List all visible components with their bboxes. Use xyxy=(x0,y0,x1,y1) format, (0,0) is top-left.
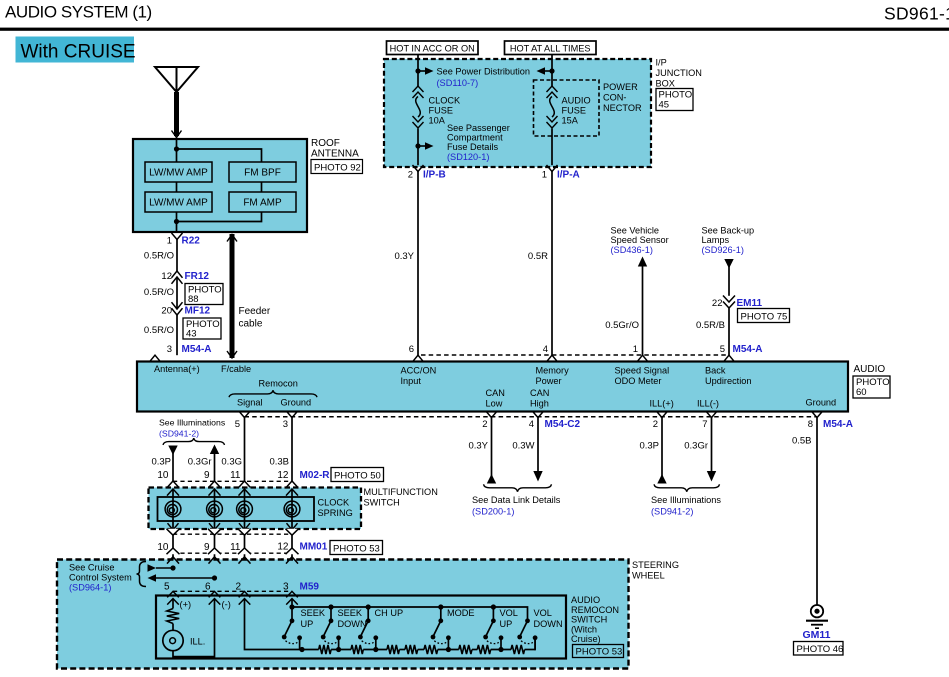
svg-text:MODE: MODE xyxy=(447,608,475,618)
amplifier block LW/MW AMP lower xyxy=(145,192,212,212)
switch SEEK_DOWN xyxy=(328,604,333,609)
svg-text:Memory: Memory xyxy=(536,366,570,376)
wire 0.3P illumination xyxy=(172,450,174,481)
svg-text:Lamps: Lamps xyxy=(702,235,730,245)
svg-text:SEEK: SEEK xyxy=(301,608,326,618)
svg-text:Remocon: Remocon xyxy=(259,379,298,389)
svg-text:M59: M59 xyxy=(300,582,320,593)
svg-text:0.3Y: 0.3Y xyxy=(468,441,488,452)
wire I/P-B to ACC/ON input xyxy=(417,172,419,356)
svg-text:SD961-1: SD961-1 xyxy=(884,4,949,24)
svg-text:(SD200-1): (SD200-1) xyxy=(472,507,514,517)
svg-text:(Witch: (Witch xyxy=(571,624,597,634)
wire audio fuse down xyxy=(551,129,553,166)
antenna mast symbol xyxy=(155,67,198,92)
svg-text:M54-C2: M54-C2 xyxy=(545,419,581,430)
roof antenna unit box xyxy=(133,139,307,232)
svg-text:PHOTO 75: PHOTO 75 xyxy=(741,311,788,322)
svg-text:I/P-B: I/P-B xyxy=(423,170,446,181)
svg-text:20: 20 xyxy=(161,306,172,317)
clock spring inner box xyxy=(158,497,315,521)
svg-text:3: 3 xyxy=(283,419,288,430)
svg-text:45: 45 xyxy=(659,100,670,111)
svg-text:(SD926-1): (SD926-1) xyxy=(702,245,744,255)
svg-text:(SD941-2): (SD941-2) xyxy=(159,429,199,439)
svg-text:CLOCK: CLOCK xyxy=(318,498,351,508)
wire CAN high xyxy=(537,418,539,472)
svg-text:EM11: EM11 xyxy=(737,298,763,309)
resistor ILL xyxy=(167,609,179,624)
MM01 pin chevrons xyxy=(167,529,180,535)
svg-text:88: 88 xyxy=(188,294,199,305)
svg-text:See Data Link Details: See Data Link Details xyxy=(472,495,561,505)
node junction bottom inside roof antenna xyxy=(174,219,179,224)
svg-text:Control System: Control System xyxy=(69,573,132,583)
connector EM11 double chevron xyxy=(723,296,735,303)
wire 0.3Gr illumination xyxy=(214,452,216,481)
svg-text:4: 4 xyxy=(529,419,534,430)
svg-text:cable: cable xyxy=(239,319,263,330)
wire speed signal xyxy=(642,266,644,355)
svg-text:UP: UP xyxy=(301,619,314,629)
arrow up to speed sensor xyxy=(638,257,647,267)
svg-text:Updirection: Updirection xyxy=(705,376,751,386)
amplifier block FM AMP xyxy=(229,192,296,212)
connector M02-R dashed line xyxy=(173,480,292,482)
svg-text:UP: UP xyxy=(500,619,513,629)
wire M59 pin2 to resistor chain xyxy=(245,599,303,650)
svg-text:FM AMP: FM AMP xyxy=(243,198,282,209)
svg-text:ILL(-): ILL(-) xyxy=(697,399,719,409)
svg-text:0.5B: 0.5B xyxy=(792,436,812,447)
wires through clock spring xyxy=(172,489,174,535)
svg-text:DOWN: DOWN xyxy=(534,619,563,629)
svg-text:MM01: MM01 xyxy=(300,542,328,553)
wire antenna(+) R22 to M54-A xyxy=(176,240,178,272)
audio remocon switch box xyxy=(156,596,566,659)
node passenger fuse tap xyxy=(415,143,420,148)
svg-text:See Illuminations: See Illuminations xyxy=(651,495,721,505)
svg-text:10: 10 xyxy=(157,470,169,481)
svg-text:0.3Gr: 0.3Gr xyxy=(684,441,708,452)
connector FR12 double chevron xyxy=(172,271,183,278)
entry chevrons multifunction top xyxy=(167,489,179,496)
svg-text:(SD436-1): (SD436-1) xyxy=(611,245,653,255)
svg-text:Cruise): Cruise) xyxy=(571,634,601,644)
I/P junction box dashed xyxy=(384,59,651,167)
svg-text:(-): (-) xyxy=(222,600,231,610)
svg-text:ILL.: ILL. xyxy=(190,637,205,647)
svg-text:Antenna(+): Antenna(+) xyxy=(154,364,200,374)
svg-text:CAN: CAN xyxy=(530,388,549,398)
svg-text:15A: 15A xyxy=(562,116,579,126)
svg-text:REMOCON: REMOCON xyxy=(571,605,619,615)
svg-text:11: 11 xyxy=(230,470,241,481)
svg-text:I/P: I/P xyxy=(656,58,667,68)
svg-text:2: 2 xyxy=(235,582,241,593)
svg-text:5: 5 xyxy=(164,582,170,593)
photo ref PHOTO 50 xyxy=(331,468,384,482)
svg-text:6: 6 xyxy=(409,344,414,355)
cruise brace xyxy=(137,562,147,587)
svg-text:0.3B: 0.3B xyxy=(269,457,289,468)
feeder cable thick wire xyxy=(230,234,235,358)
svg-text:With CRUISE: With CRUISE xyxy=(21,42,136,63)
svg-text:10: 10 xyxy=(157,542,169,553)
svg-text:See Illuminations: See Illuminations xyxy=(159,418,226,428)
svg-text:0.3W: 0.3W xyxy=(512,441,534,452)
wire antenna feed inside roof antenna xyxy=(176,139,178,162)
svg-text:WHEEL: WHEEL xyxy=(632,571,665,581)
power connector dashed box xyxy=(534,80,600,136)
arrow down from back-up lamps xyxy=(724,259,733,269)
svg-text:3: 3 xyxy=(283,582,289,593)
M59 pin chevrons xyxy=(167,591,179,597)
photo ref PHOTO 45 xyxy=(656,89,693,111)
svg-text:DOWN: DOWN xyxy=(338,619,367,629)
svg-text:Ground: Ground xyxy=(281,398,312,408)
connector I/P-A chevron xyxy=(547,165,558,172)
node power distribution tap right xyxy=(549,68,554,73)
svg-text:AUDIO SYSTEM (1): AUDIO SYSTEM (1) xyxy=(5,3,152,22)
header rule xyxy=(0,28,949,31)
pin chevrons audio top edge xyxy=(150,355,161,362)
svg-text:0.5R/O: 0.5R/O xyxy=(144,251,174,262)
svg-text:See Vehicle: See Vehicle xyxy=(611,226,660,236)
wire lamp to (-) xyxy=(173,599,215,657)
svg-text:FM BPF: FM BPF xyxy=(244,168,281,179)
svg-text:LW/MW AMP: LW/MW AMP xyxy=(149,168,208,179)
svg-text:1: 1 xyxy=(633,344,638,355)
svg-text:High: High xyxy=(530,399,549,409)
svg-text:VOL: VOL xyxy=(534,608,552,618)
svg-text:SWITCH: SWITCH xyxy=(571,615,607,625)
wires through MM01 xyxy=(172,535,174,548)
svg-text:0.3Y: 0.3Y xyxy=(394,251,414,262)
svg-text:JUNCTION: JUNCTION xyxy=(656,68,702,78)
photo ref PHOTO 53 lower xyxy=(573,645,624,658)
svg-text:See Power Distribution: See Power Distribution xyxy=(437,67,530,77)
svg-text:MULTIFUNCTION: MULTIFUNCTION xyxy=(364,487,438,497)
svg-text:STEERING: STEERING xyxy=(632,560,679,570)
svg-text:0.3P: 0.3P xyxy=(639,441,659,452)
svg-text:22: 22 xyxy=(712,298,723,309)
connector R22 chevron at roof antenna xyxy=(172,233,183,240)
svg-text:43: 43 xyxy=(186,329,197,340)
svg-text:Compartment: Compartment xyxy=(447,133,503,143)
svg-text:6: 6 xyxy=(205,582,211,593)
svg-text:PHOTO 53: PHOTO 53 xyxy=(333,543,380,554)
svg-text:BOX: BOX xyxy=(656,79,675,89)
svg-text:HOT IN ACC OR ON: HOT IN ACC OR ON xyxy=(390,44,475,54)
svg-text:1: 1 xyxy=(167,236,172,247)
svg-text:2: 2 xyxy=(408,170,413,181)
svg-text:Low: Low xyxy=(486,399,503,409)
wire FM AMP output xyxy=(177,212,262,222)
svg-text:2: 2 xyxy=(653,419,658,430)
svg-text:GM11: GM11 xyxy=(802,629,830,641)
antenna lead-in thick wire xyxy=(174,92,179,136)
svg-text:(SD941-2): (SD941-2) xyxy=(651,507,693,517)
photo ref PHOTO 75 xyxy=(738,309,790,323)
wire from HOT IN ACC OR ON xyxy=(417,55,419,87)
photo ref PHOTO 88 xyxy=(185,284,223,305)
svg-text:POWER: POWER xyxy=(603,82,638,92)
ground symbol GM11 xyxy=(811,605,823,617)
svg-text:(+): (+) xyxy=(180,600,192,610)
svg-text:Fuse Details: Fuse Details xyxy=(447,142,498,152)
svg-text:ANTENNA: ANTENNA xyxy=(311,149,359,160)
wire ILL(-) pin7 xyxy=(711,418,713,472)
lamp ILL. xyxy=(163,630,183,650)
filter block FM BPF xyxy=(229,162,296,182)
svg-text:Input: Input xyxy=(401,376,422,386)
svg-text:Speed Signal: Speed Signal xyxy=(615,366,670,376)
svg-text:12: 12 xyxy=(277,542,289,553)
svg-text:CH UP: CH UP xyxy=(375,608,404,618)
fuse AUDIO FUSE 15A xyxy=(547,86,558,92)
svg-text:M54-A: M54-A xyxy=(733,344,763,355)
wire to FM BPF xyxy=(177,149,262,162)
svg-text:PHOTO 53: PHOTO 53 xyxy=(576,647,623,658)
switch CH UP xyxy=(366,604,371,609)
switch VOL_DOWN xyxy=(525,618,530,623)
svg-text:8: 8 xyxy=(808,419,813,430)
arrow up illumination return xyxy=(210,445,219,455)
svg-text:2: 2 xyxy=(482,419,487,430)
svg-text:FUSE: FUSE xyxy=(429,106,454,116)
connector M59 dashed line xyxy=(173,590,292,592)
svg-text:0.5Gr/O: 0.5Gr/O xyxy=(605,320,639,331)
svg-text:4: 4 xyxy=(543,344,548,355)
wire ground 0.5B xyxy=(816,418,818,605)
svg-text:See Back-up: See Back-up xyxy=(702,226,755,236)
cruise tap arrow to ILL+ wire xyxy=(148,564,157,571)
svg-text:0.3G: 0.3G xyxy=(221,457,242,468)
wire link FM BPF to FM AMP xyxy=(261,182,263,192)
svg-text:ROOF: ROOF xyxy=(311,138,340,149)
fuse CLOCK FUSE 10A xyxy=(413,86,424,92)
svg-text:Signal: Signal xyxy=(237,398,263,408)
svg-text:0.5R/B: 0.5R/B xyxy=(696,320,725,331)
multifunction switch dashed box xyxy=(149,488,362,530)
svg-text:9: 9 xyxy=(204,542,210,553)
wire back updirection upper xyxy=(728,263,730,296)
wire M59 pin3 to switch bus xyxy=(291,599,293,607)
svg-text:0.3Gr: 0.3Gr xyxy=(188,457,212,468)
label box HOT AT ALL TIMES xyxy=(505,41,597,55)
svg-text:NECTOR: NECTOR xyxy=(603,103,642,113)
wire CAN low xyxy=(491,418,493,477)
photo ref PHOTO 92 xyxy=(311,160,363,174)
With CRUISE banner xyxy=(16,37,135,63)
svg-text:PHOTO 50: PHOTO 50 xyxy=(334,470,381,481)
svg-text:AUDIO: AUDIO xyxy=(562,96,591,106)
clock spring spiral coils xyxy=(165,501,181,517)
svg-text:7: 7 xyxy=(702,419,707,430)
svg-text:R22: R22 xyxy=(182,236,201,247)
connector M02-R pin chevrons xyxy=(167,481,179,488)
svg-text:CAN: CAN xyxy=(486,388,505,398)
svg-text:ILL(+): ILL(+) xyxy=(650,399,674,409)
pin chevrons audio bottom edge xyxy=(239,411,250,417)
svg-text:0.5R: 0.5R xyxy=(528,251,548,262)
connector M54-A dashed line top xyxy=(421,354,726,356)
svg-text:M54-A: M54-A xyxy=(823,419,853,430)
photo ref PHOTO 46 xyxy=(794,642,844,656)
svg-text:11: 11 xyxy=(230,542,241,553)
svg-text:0.3P: 0.3P xyxy=(151,457,171,468)
svg-text:SWITCH: SWITCH xyxy=(364,498,400,508)
svg-text:ACC/ON: ACC/ON xyxy=(401,366,437,376)
svg-text:CLOCK: CLOCK xyxy=(429,96,462,106)
steering wheel dashed box xyxy=(57,560,629,669)
svg-text:AUDIO: AUDIO xyxy=(854,364,886,375)
exit chevrons multifunction bottom xyxy=(168,523,179,530)
svg-text:CON-: CON- xyxy=(603,93,626,103)
svg-text:10A: 10A xyxy=(429,116,446,126)
svg-text:3: 3 xyxy=(167,344,172,355)
photo ref PHOTO 43 xyxy=(183,318,221,339)
amplifier block LW/MW AMP upper xyxy=(145,162,212,182)
svg-text:9: 9 xyxy=(204,470,210,481)
connector I/P-B chevron xyxy=(413,165,424,172)
wire chain end to VOL DOWN contact xyxy=(534,638,536,651)
wire clock fuse down xyxy=(417,129,419,166)
svg-text:AUDIO: AUDIO xyxy=(571,595,600,605)
svg-text:HOT AT ALL TIMES: HOT AT ALL TIMES xyxy=(510,44,591,54)
connector MF12 double chevron xyxy=(172,302,183,309)
wire remocon signal xyxy=(244,418,246,481)
switch contact junction dots on chain xyxy=(299,647,304,652)
illumination underbrace right xyxy=(654,484,720,492)
svg-text:I/P-A: I/P-A xyxy=(557,170,580,181)
svg-text:FR12: FR12 xyxy=(185,271,210,282)
wire LW/MW AMP output xyxy=(176,212,178,232)
arrow down illumination feed xyxy=(168,446,177,456)
svg-text:Feeder: Feeder xyxy=(239,306,271,317)
photo ref PHOTO 60 xyxy=(853,376,890,398)
svg-text:Power: Power xyxy=(536,376,562,386)
svg-text:5: 5 xyxy=(235,419,240,430)
svg-text:(SD120-1): (SD120-1) xyxy=(447,152,489,162)
switch SEEK_UP xyxy=(289,604,294,609)
photo ref PHOTO 53 upper xyxy=(330,541,383,555)
switch MODE xyxy=(438,604,443,609)
svg-text:Ground: Ground xyxy=(806,398,837,408)
svg-text:ODO Meter: ODO Meter xyxy=(615,376,662,386)
cruise tap arrow from ILL- wire xyxy=(148,574,157,581)
svg-text:60: 60 xyxy=(856,387,867,398)
svg-text:VOL: VOL xyxy=(500,608,518,618)
label box HOT IN ACC OR ON xyxy=(387,41,479,55)
svg-text:F/cable: F/cable xyxy=(221,364,251,374)
svg-text:Speed Sensor: Speed Sensor xyxy=(611,235,669,245)
svg-text:SPRING: SPRING xyxy=(318,508,353,518)
wire I/P-A to memory power xyxy=(551,172,553,356)
svg-text:M02-R: M02-R xyxy=(300,470,331,481)
audio head unit box xyxy=(137,362,848,412)
svg-text:12: 12 xyxy=(277,470,289,481)
svg-text:PHOTO 46: PHOTO 46 xyxy=(797,644,844,655)
svg-text:Back: Back xyxy=(705,366,726,376)
svg-text:M54-A: M54-A xyxy=(182,344,212,355)
wire remocon ground xyxy=(291,418,293,481)
switch VOL_UP xyxy=(491,604,496,609)
svg-text:See Passenger: See Passenger xyxy=(447,123,510,133)
svg-text:0.5R/O: 0.5R/O xyxy=(144,287,174,298)
svg-text:MF12: MF12 xyxy=(185,306,211,317)
svg-text:12: 12 xyxy=(161,271,172,282)
svg-text:See Cruise: See Cruise xyxy=(69,563,114,573)
entry chevrons steering box xyxy=(167,557,179,564)
svg-text:0.5R/O: 0.5R/O xyxy=(144,325,174,336)
svg-text:5: 5 xyxy=(720,344,725,355)
svg-text:(SD110-7): (SD110-7) xyxy=(437,78,479,88)
wire ILL(+) pin2 xyxy=(661,418,663,477)
switch top bus xyxy=(292,607,528,621)
svg-text:FUSE: FUSE xyxy=(562,106,587,116)
connector MM01 dashed lines xyxy=(173,533,292,535)
svg-text:LW/MW AMP: LW/MW AMP xyxy=(149,198,208,209)
illumination overbrace left xyxy=(163,438,225,445)
connector dashed line bottom xyxy=(245,416,818,418)
node power distribution tap left xyxy=(415,68,420,73)
wire link LW/MW AMPs xyxy=(176,182,178,192)
node junction top inside roof antenna xyxy=(174,146,179,151)
wire from HOT AT ALL TIMES xyxy=(551,55,553,87)
svg-text:(SD964-1): (SD964-1) xyxy=(69,583,111,593)
data link underbrace xyxy=(484,484,552,492)
svg-text:SEEK: SEEK xyxy=(338,608,363,618)
resistor chain xyxy=(302,649,319,651)
svg-text:1: 1 xyxy=(542,170,547,181)
svg-text:PHOTO 92: PHOTO 92 xyxy=(314,162,361,173)
